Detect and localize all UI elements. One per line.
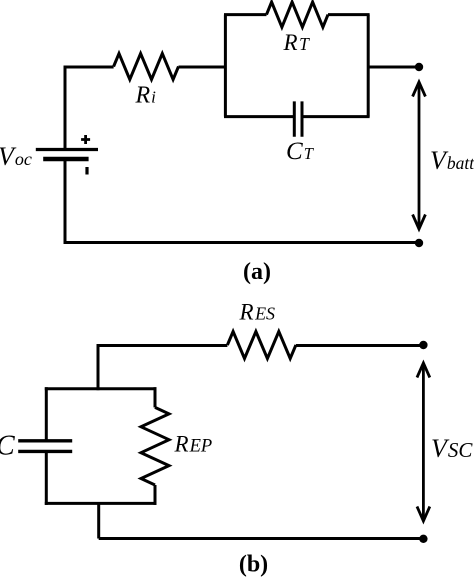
svg-text:C: C (0, 431, 15, 462)
svg-text:RT: RT (283, 30, 311, 55)
svg-text:(b): (b) (239, 552, 268, 578)
svg-text:(a): (a) (243, 259, 271, 285)
svg-text:VSC: VSC (431, 434, 473, 463)
svg-text:RES: RES (239, 300, 276, 325)
